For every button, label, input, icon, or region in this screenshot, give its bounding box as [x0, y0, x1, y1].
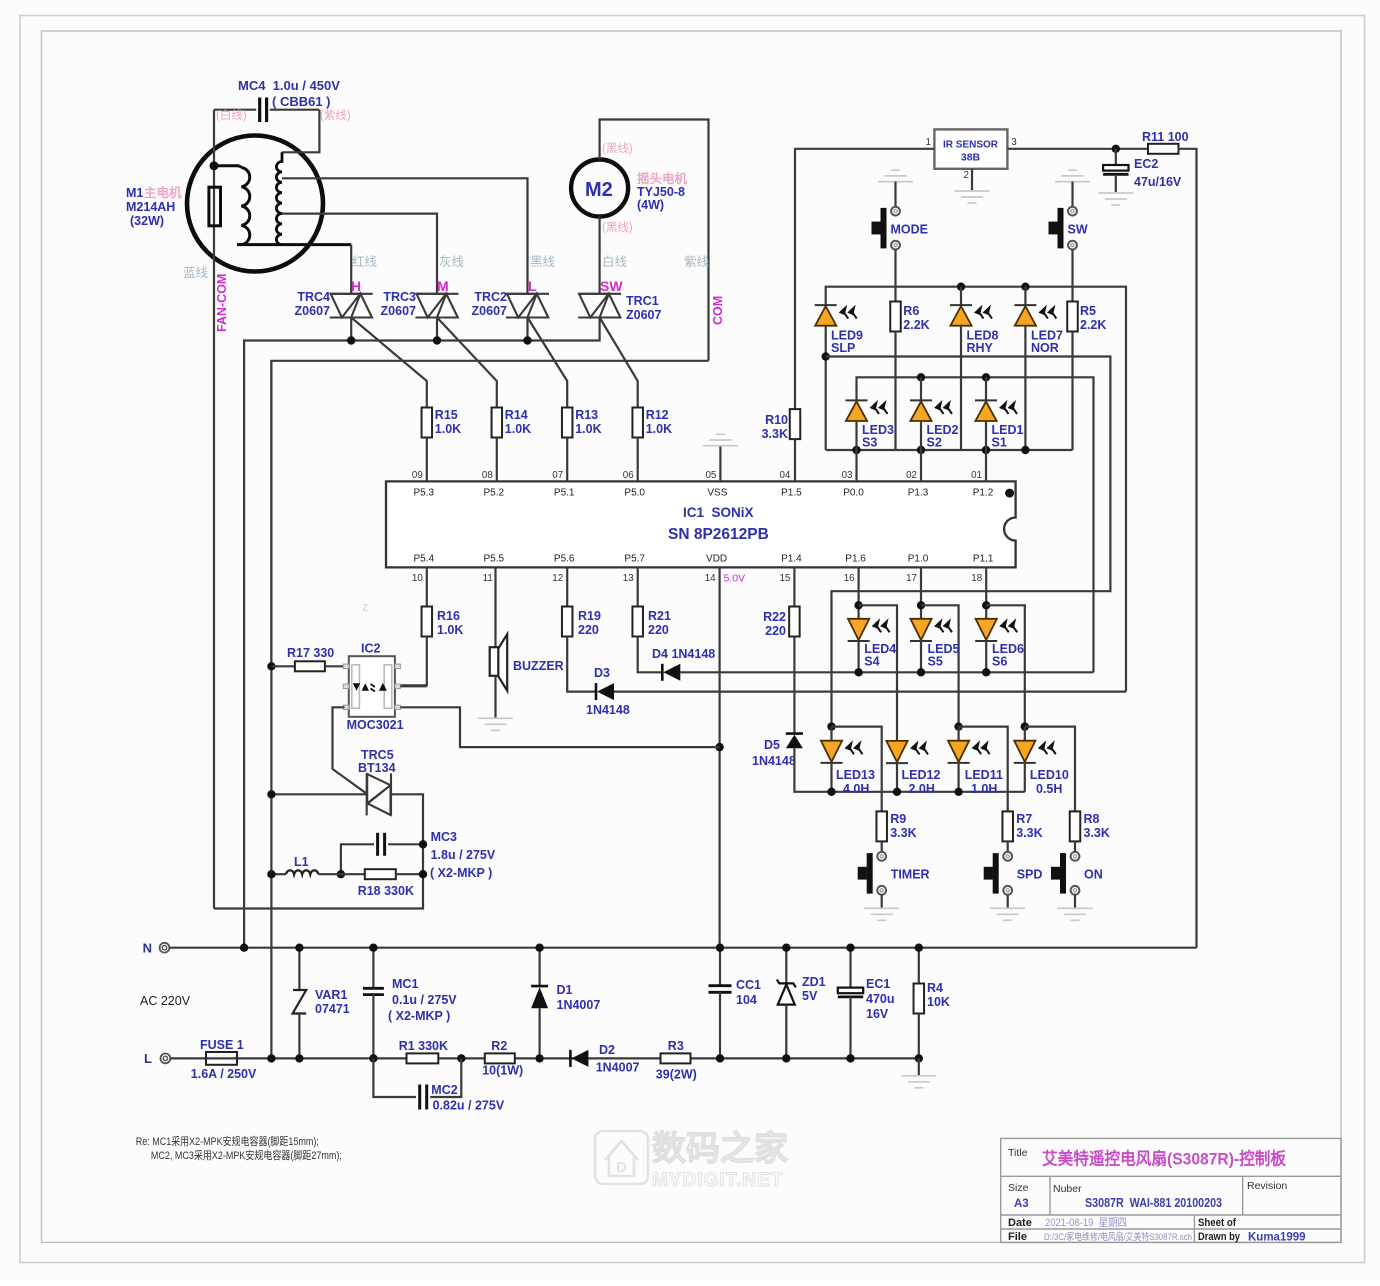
- node LED4 bottom: [854, 668, 862, 676]
- wire R10 to pin04: [794, 439, 796, 481]
- capacitor MC2: [373, 1058, 416, 1097]
- LED LED1: [985, 377, 987, 400]
- wire L rail: [170, 1057, 919, 1059]
- ground IR pin2: [955, 191, 990, 203]
- svg-text:TRC2: TRC2: [474, 290, 507, 304]
- svg-text:P5.7: P5.7: [624, 554, 645, 565]
- ground ON: [1058, 908, 1093, 920]
- LED LED13: [830, 727, 832, 741]
- opto-coupler IC2 MOC3021: [349, 656, 395, 717]
- svg-text:SW: SW: [600, 278, 623, 294]
- zener ZD1: [785, 948, 787, 984]
- resistor R6: [890, 302, 901, 332]
- svg-text:BT134: BT134: [358, 761, 396, 775]
- svg-text:L1: L1: [294, 855, 309, 869]
- wire winding bottom to TRC4: [350, 245, 352, 294]
- svg-text:COM: COM: [711, 296, 725, 325]
- node N motor COM: [240, 944, 248, 952]
- buzzer: [494, 567, 496, 647]
- node LED1 bottom: [982, 446, 990, 454]
- node M1 winding tap: [210, 161, 219, 170]
- svg-text:R11 100: R11 100: [1142, 130, 1189, 144]
- LED LED11: [957, 727, 959, 741]
- svg-text:R18 330K: R18 330K: [358, 884, 414, 898]
- svg-text:Z0607: Z0607: [295, 304, 330, 318]
- node EC1 N: [846, 944, 854, 952]
- svg-text:A3: A3: [1014, 1198, 1029, 1210]
- svg-text:MODE: MODE: [891, 223, 929, 237]
- capacitor MC4: [214, 109, 256, 111]
- svg-text:1: 1: [926, 137, 931, 148]
- svg-text:3.3K: 3.3K: [1016, 826, 1042, 840]
- node R17: [267, 662, 275, 670]
- svg-text:MC1: MC1: [392, 977, 418, 991]
- svg-text:M1: M1: [126, 186, 143, 200]
- wire R9 to button: [881, 841, 883, 852]
- svg-text:P5.5: P5.5: [484, 554, 505, 565]
- wire VDD column: [718, 567, 720, 947]
- node ZD1 L: [782, 1054, 790, 1062]
- node TRC4 bus: [347, 336, 355, 344]
- wire R12 to IC: [637, 438, 639, 482]
- resistor R2: [485, 1053, 515, 1063]
- node LED12 bottom: [893, 788, 901, 796]
- svg-text:Sheet of: Sheet of: [1198, 1217, 1236, 1229]
- title block frame: [1001, 1138, 1341, 1242]
- node EC1 L: [846, 1054, 854, 1062]
- svg-text:220: 220: [765, 624, 786, 638]
- svg-text:TRC5: TRC5: [361, 748, 394, 762]
- svg-text:P1.0: P1.0: [908, 554, 929, 565]
- node LED10 top: [1021, 722, 1029, 730]
- capacitor EC2: [1115, 149, 1117, 165]
- node LED13 top: [827, 722, 835, 730]
- svg-text:SW: SW: [1068, 223, 1088, 237]
- svg-text:S5: S5: [928, 655, 943, 669]
- svg-text:SLP: SLP: [831, 341, 855, 355]
- wire MODE top: [894, 182, 896, 207]
- svg-text:IC1 SONiX: IC1 SONiX: [683, 505, 754, 520]
- svg-text:VDD: VDD: [706, 554, 727, 565]
- svg-text:R21: R21: [648, 609, 671, 623]
- wire IC2 pin6 to R16: [400, 685, 426, 687]
- svg-text:R3: R3: [668, 1039, 684, 1053]
- svg-text:红线: 红线: [352, 254, 378, 269]
- node LED11 top: [954, 722, 962, 730]
- svg-text:L: L: [144, 1051, 152, 1066]
- motor M1 circle: [187, 136, 323, 272]
- inductor L1: [271, 873, 286, 875]
- svg-text:紫线: 紫线: [684, 255, 710, 269]
- svg-text:LED13: LED13: [836, 768, 875, 782]
- svg-text:蓝线: 蓝线: [183, 266, 209, 280]
- wire pin16 to LED4: [857, 567, 859, 618]
- wire triac common bus to N: [350, 318, 352, 341]
- resistor R12: [632, 408, 643, 438]
- svg-text:1N4007: 1N4007: [596, 1061, 640, 1075]
- svg-text:ZD1: ZD1: [802, 975, 826, 989]
- wire pin03: [855, 450, 857, 481]
- svg-text:Kuma1999: Kuma1999: [1248, 1232, 1306, 1244]
- svg-text:TRC4: TRC4: [297, 290, 330, 304]
- node D1 L: [535, 1054, 543, 1062]
- wire LED6 jog to LED10: [986, 605, 1025, 726]
- capacitor MC1: [372, 948, 374, 989]
- diode D1: [538, 948, 540, 986]
- svg-text:3.3K: 3.3K: [890, 826, 916, 840]
- resistor R22: [793, 567, 795, 606]
- svg-text:104: 104: [736, 993, 757, 1007]
- node LED8 top: [957, 283, 965, 291]
- svg-text:R6: R6: [903, 304, 919, 318]
- svg-text:N: N: [143, 941, 152, 956]
- wire IC2 pin2 to TRC5 gate: [333, 707, 367, 793]
- resistor R15: [422, 408, 433, 438]
- svg-text:灰线: 灰线: [439, 255, 465, 269]
- LED LED12: [886, 762, 908, 764]
- svg-text:04: 04: [779, 470, 790, 481]
- triac TRC2: [506, 294, 549, 318]
- svg-text:09: 09: [412, 470, 423, 481]
- svg-text:R10: R10: [765, 413, 788, 427]
- wire R6 bottom: [894, 332, 896, 451]
- node LED7 bottom: [1021, 446, 1029, 454]
- svg-text:12: 12: [552, 573, 563, 584]
- wire SPD to ground: [1007, 895, 1009, 908]
- svg-text:220: 220: [578, 623, 599, 637]
- svg-text:RHY: RHY: [967, 341, 994, 355]
- svg-text:R2: R2: [491, 1039, 507, 1053]
- svg-text:1.0K: 1.0K: [575, 422, 601, 436]
- wire pin01: [985, 450, 987, 481]
- wire D5 to timer LED cathodes: [794, 748, 1024, 792]
- svg-text:VAR1: VAR1: [315, 988, 347, 1002]
- capacitor CC1: [719, 948, 721, 986]
- node TRC5 left: [267, 790, 275, 798]
- svg-text:P1.2: P1.2: [973, 488, 994, 499]
- svg-text:17: 17: [906, 573, 917, 584]
- wire TRC3 gate: [437, 318, 497, 408]
- wire M2 bottom to TRC1: [598, 217, 600, 294]
- node LED2 bottom: [917, 446, 925, 454]
- node ZD1 N: [782, 944, 790, 952]
- wire TRC2 gate: [528, 318, 568, 408]
- resistor R3: [661, 1053, 691, 1063]
- wire LED13 jog to R9: [832, 727, 882, 812]
- ground R4: [918, 1058, 920, 1075]
- svg-text:EC2: EC2: [1134, 157, 1158, 171]
- svg-text:S2: S2: [927, 436, 942, 450]
- svg-text:18: 18: [971, 573, 982, 584]
- wire R7 to button: [1007, 841, 1009, 852]
- svg-text:1.0K: 1.0K: [437, 623, 463, 637]
- wire TRC5 MT2 loop: [214, 794, 423, 908]
- svg-text:47u/16V: 47u/16V: [1134, 175, 1182, 189]
- node R1 right: [457, 1054, 465, 1062]
- svg-text:10(1W): 10(1W): [482, 1064, 523, 1078]
- triac TRC3: [416, 294, 459, 318]
- svg-text:06: 06: [623, 470, 634, 481]
- svg-text:02: 02: [906, 470, 917, 481]
- svg-text:R8: R8: [1084, 812, 1100, 826]
- svg-text:FAN-COM: FAN-COM: [215, 274, 229, 332]
- svg-text:1.0K: 1.0K: [646, 422, 672, 436]
- svg-text:1.0K: 1.0K: [505, 422, 531, 436]
- resistor R5: [1067, 302, 1078, 332]
- svg-text:P5.6: P5.6: [554, 554, 575, 565]
- svg-text:LED11: LED11: [965, 768, 1003, 782]
- ground SW: [1055, 170, 1090, 181]
- svg-text:MC2, MC3采用X2-MPK安规电容器(脚距27mm);: MC2, MC3采用X2-MPK安规电容器(脚距27mm);: [151, 1148, 342, 1162]
- svg-text:摇头电机: 摇头电机: [637, 171, 688, 186]
- wire LED7 cathode: [1024, 326, 1026, 450]
- svg-text:2.2K: 2.2K: [903, 318, 929, 332]
- svg-text:15: 15: [779, 573, 790, 584]
- svg-text:NOR: NOR: [1031, 341, 1059, 355]
- svg-text:R19: R19: [578, 609, 601, 623]
- svg-text:SPD: SPD: [1017, 868, 1043, 882]
- svg-text:数码之家: 数码之家: [652, 1130, 788, 1168]
- resistor R9: [876, 811, 887, 841]
- wire R15 to IC: [426, 438, 428, 482]
- node L1 right: [337, 870, 345, 878]
- svg-text:Nuber: Nuber: [1053, 1183, 1082, 1195]
- wire LED4 jog to LED12: [859, 605, 897, 741]
- svg-text:M: M: [437, 278, 449, 294]
- svg-text:Z0607: Z0607: [381, 304, 416, 318]
- svg-text:( CBB61 ): ( CBB61 ): [272, 94, 331, 109]
- svg-text:TRC1: TRC1: [626, 294, 659, 308]
- svg-text:艾美特遥控电风扇(S3087R)-控制板: 艾美特遥控电风扇(S3087R)-控制板: [1042, 1149, 1287, 1169]
- svg-text:File: File: [1008, 1231, 1027, 1243]
- svg-text:5V: 5V: [802, 989, 818, 1003]
- svg-text:P5.4: P5.4: [414, 554, 435, 565]
- svg-text:2.2K: 2.2K: [1080, 318, 1106, 332]
- wire M1 left column (blue COM): [213, 110, 215, 909]
- node LED3 bottom: [852, 446, 860, 454]
- svg-text:10K: 10K: [927, 995, 950, 1009]
- ground VSS: [719, 446, 721, 482]
- svg-text:1.8u / 275V: 1.8u / 275V: [431, 848, 496, 862]
- node MC3 right: [419, 840, 427, 848]
- node R4 N: [915, 944, 923, 952]
- svg-text:(4W): (4W): [637, 198, 664, 212]
- node LED1 anode: [982, 373, 990, 381]
- LED LED4: [848, 640, 870, 642]
- wire tap2 to TRC3: [282, 214, 437, 294]
- svg-text:14: 14: [705, 573, 716, 584]
- svg-text:CC1: CC1: [736, 978, 761, 992]
- wire LED456 cathode line: [680, 671, 1093, 673]
- svg-text:2: 2: [964, 170, 969, 181]
- svg-text:SN 8P2612PB: SN 8P2612PB: [668, 526, 769, 543]
- svg-text:1.6A / 250V: 1.6A / 250V: [191, 1067, 257, 1081]
- svg-text:R14: R14: [505, 408, 528, 422]
- motor M2 circle: [571, 160, 628, 217]
- wire R5 bottom: [1071, 332, 1073, 451]
- wire R16 to IC2: [399, 637, 426, 686]
- svg-text:Re: MC1采用X2-MPK安规电容器(脚距15mm);: Re: MC1采用X2-MPK安规电容器(脚距15mm);: [136, 1134, 319, 1148]
- wire left return column: [270, 361, 272, 667]
- wire pin18 to LED6: [985, 567, 987, 618]
- node LED13 bottom: [827, 788, 835, 796]
- svg-text:IR SENSOR: IR SENSOR: [943, 139, 998, 151]
- ground TIMER: [864, 908, 899, 920]
- svg-text:5.0V: 5.0V: [724, 573, 746, 585]
- node MC1 N: [369, 944, 377, 952]
- svg-text:TYJ50-8: TYJ50-8: [637, 185, 685, 199]
- pushbutton MODE: [872, 207, 900, 250]
- svg-text:1.0H: 1.0H: [971, 782, 997, 796]
- svg-text:TIMER: TIMER: [891, 868, 930, 882]
- node CC1 L: [716, 1054, 724, 1062]
- node LED6 bottom: [982, 668, 990, 676]
- svg-text:D2: D2: [599, 1043, 615, 1057]
- node LED11 bottom: [954, 788, 962, 796]
- wire R13 to IC: [566, 438, 568, 482]
- svg-text:P1.3: P1.3: [908, 488, 929, 499]
- main winding (left coil): [214, 166, 241, 168]
- thermal fuse inside M1: [209, 187, 221, 226]
- wire COM return bus: [271, 361, 708, 1059]
- resistor R16: [426, 567, 428, 606]
- svg-text:S3087R WAI-881 20100203: S3087R WAI-881 20100203: [1085, 1195, 1222, 1210]
- svg-text:16V: 16V: [866, 1007, 889, 1021]
- wire LED11 jog to R7: [959, 727, 1008, 812]
- terminal N: [160, 943, 170, 953]
- node TRC3 bus: [433, 336, 441, 344]
- svg-text:( X2-MKP ): ( X2-MKP ): [430, 866, 492, 880]
- svg-text:L: L: [528, 278, 537, 294]
- triac TRC4: [330, 294, 373, 318]
- node VAR1 N: [295, 944, 303, 952]
- svg-text:MOC3021: MOC3021: [347, 718, 404, 732]
- wire TRC1 gate: [600, 318, 638, 408]
- wire LED5 jog to LED11: [921, 605, 959, 726]
- svg-text:Z0607: Z0607: [472, 304, 507, 318]
- svg-text:P5.2: P5.2: [484, 488, 505, 499]
- wire IR pin3: [1007, 148, 1148, 150]
- svg-text:P1.6: P1.6: [845, 554, 866, 565]
- resistor R13: [562, 408, 573, 438]
- svg-text:Drawn by: Drawn by: [1198, 1231, 1241, 1243]
- svg-text:R4: R4: [927, 981, 943, 995]
- svg-text:R15: R15: [435, 408, 458, 422]
- pushbutton TIMER: [858, 852, 886, 895]
- svg-text:38B: 38B: [961, 152, 981, 164]
- svg-text:TRC3: TRC3: [383, 290, 416, 304]
- svg-text:0.82u / 275V: 0.82u / 275V: [433, 1099, 505, 1113]
- resistor R11: [1148, 144, 1179, 154]
- svg-text:2.0H: 2.0H: [909, 782, 935, 796]
- wire IC2 pin4 return to VDD node: [400, 707, 719, 747]
- svg-text:11: 11: [483, 573, 493, 584]
- svg-text:Size: Size: [1008, 1182, 1029, 1194]
- svg-text:3.3K: 3.3K: [762, 427, 788, 441]
- node L1 left: [267, 870, 275, 878]
- svg-text:白线: 白线: [602, 254, 628, 269]
- resistor R4: [918, 948, 920, 984]
- node LED5 top: [917, 601, 925, 609]
- svg-text:P5.3: P5.3: [414, 488, 435, 499]
- node VAR1 L: [295, 1054, 303, 1062]
- svg-text:39(2W): 39(2W): [656, 1068, 697, 1082]
- svg-text:Date: Date: [1008, 1217, 1032, 1229]
- wire LED8 cathode: [960, 326, 962, 450]
- resistor R21: [637, 567, 639, 606]
- node L return: [267, 1054, 275, 1062]
- svg-text:16: 16: [844, 573, 855, 584]
- node R18 right: [419, 870, 427, 878]
- svg-text:Title: Title: [1008, 1147, 1028, 1159]
- svg-text:EC1: EC1: [866, 977, 890, 991]
- svg-text:D5: D5: [764, 738, 780, 752]
- node TRC2 bus: [523, 336, 531, 344]
- svg-text:(白线): (白线): [216, 108, 247, 122]
- svg-text:FUSE 1: FUSE 1: [200, 1038, 244, 1052]
- svg-text:BUZZER: BUZZER: [513, 659, 564, 673]
- terminal L: [161, 1054, 171, 1064]
- wire M2 top to COM column: [600, 120, 709, 361]
- svg-text:MC4 1.0u / 450V: MC4 1.0u / 450V: [238, 78, 340, 93]
- node LED9 bus1: [822, 352, 830, 360]
- svg-text:D4 1N4148: D4 1N4148: [652, 647, 715, 661]
- svg-text:3.3K: 3.3K: [1084, 826, 1110, 840]
- resistor R17: [271, 665, 295, 667]
- svg-text:P1.1: P1.1: [973, 554, 994, 565]
- wire IR pin2: [971, 169, 973, 190]
- LED LED2: [920, 377, 922, 400]
- node LED4 top: [854, 601, 862, 609]
- wire SW top: [1071, 182, 1073, 207]
- capacitor EC1: [849, 948, 851, 988]
- svg-text:07: 07: [552, 470, 563, 481]
- watermark mydigit logo: [595, 1131, 648, 1184]
- svg-text:0.1u / 275V: 0.1u / 275V: [392, 993, 457, 1007]
- svg-text:03: 03: [842, 470, 853, 481]
- wire scan bus2: [826, 449, 1073, 451]
- svg-text:Revision: Revision: [1247, 1180, 1287, 1192]
- pushbutton ON: [1051, 852, 1079, 895]
- wire TIMER to ground: [881, 895, 883, 908]
- wire pin02: [920, 450, 922, 481]
- node LED5 bottom: [917, 668, 925, 676]
- svg-text:IC2: IC2: [361, 642, 381, 656]
- triac TRC5 BT134: [367, 773, 391, 815]
- diode D4: [638, 637, 663, 673]
- wire TRC5 MT1: [271, 793, 366, 795]
- diode D5: [793, 637, 795, 734]
- resistor R8: [1070, 811, 1081, 841]
- IC1 pin1 mark: [1005, 489, 1014, 498]
- svg-text:R5: R5: [1080, 304, 1096, 318]
- LED LED9: [815, 304, 837, 306]
- wire R11 to right rail down to N: [1179, 149, 1197, 948]
- svg-text:S6: S6: [992, 655, 1007, 669]
- svg-text:R7: R7: [1016, 812, 1032, 826]
- capacitor MC3: [341, 844, 374, 874]
- svg-text:01: 01: [971, 470, 982, 481]
- svg-text:P1.4: P1.4: [781, 554, 802, 565]
- svg-text:P1.5: P1.5: [781, 488, 802, 499]
- wire LED9 cathode bus1: [825, 326, 827, 450]
- wire winding bottom: [237, 243, 351, 246]
- wire LED10 jog to R8: [1025, 727, 1075, 812]
- svg-text:ON: ON: [1084, 868, 1103, 882]
- svg-text:z: z: [362, 599, 369, 614]
- LED LED5: [910, 640, 932, 642]
- svg-text:07471: 07471: [315, 1002, 350, 1016]
